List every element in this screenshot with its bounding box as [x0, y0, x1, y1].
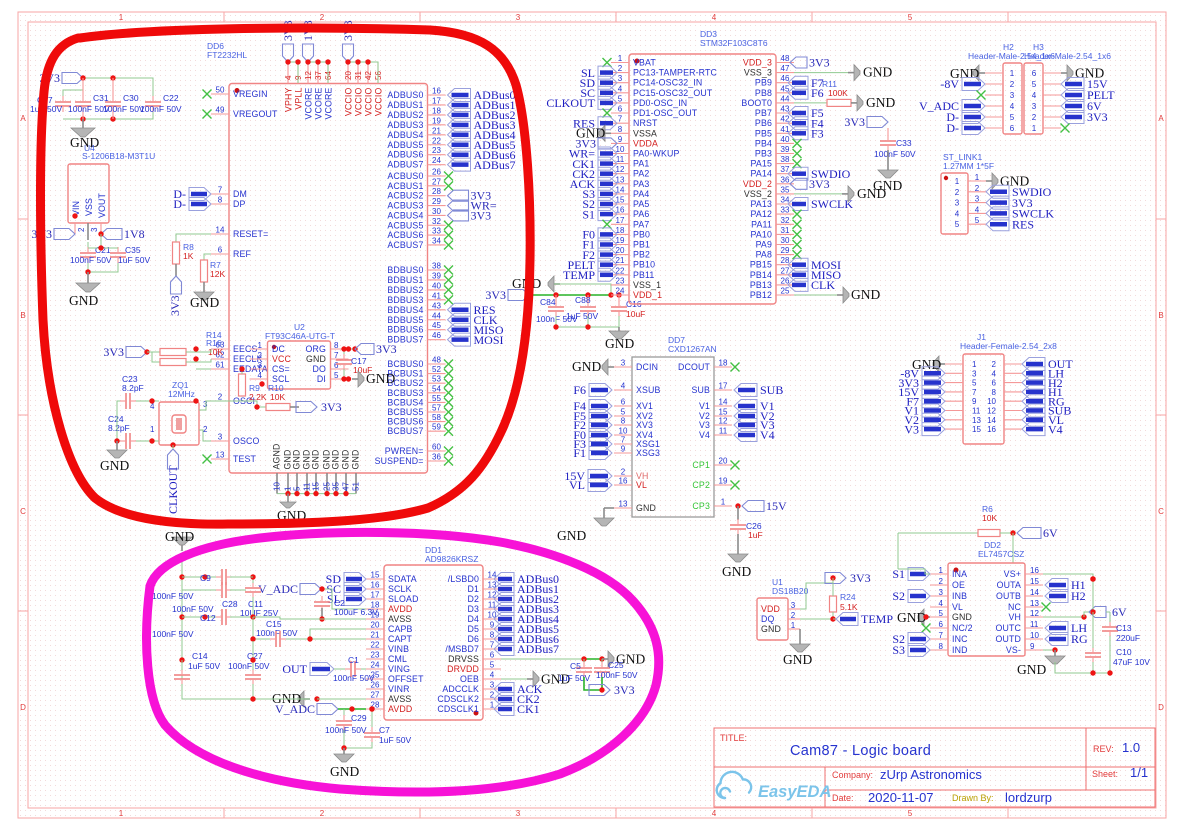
svg-text:DP: DP	[233, 199, 246, 209]
svg-text:23: 23	[371, 651, 380, 660]
pin 20 CP1	[714, 464, 732, 466]
svg-text:GND: GND	[866, 95, 895, 110]
svg-text:GND: GND	[351, 450, 361, 470]
svg-text:ACBUS7: ACBUS7	[387, 240, 423, 250]
svg-text:1uF 50V: 1uF 50V	[558, 673, 590, 683]
port TEMP	[833, 618, 836, 620]
pin 40 PB4	[776, 142, 794, 144]
svg-text:GND: GND	[165, 529, 194, 544]
svg-text:BDBUS6: BDBUS6	[387, 325, 423, 335]
pin 4 OEB	[483, 678, 501, 680]
wire VS+ to 6V	[1043, 574, 1093, 579]
svg-text:V3: V3	[699, 420, 710, 430]
svg-text:4: 4	[621, 382, 626, 391]
pin 33 ACBUS6	[428, 234, 446, 236]
pin 44 BOOT0	[776, 102, 794, 104]
svg-text:3V3: 3V3	[168, 295, 182, 316]
svg-text:4: 4	[258, 371, 263, 380]
pin 48 BCBUS0	[428, 363, 446, 365]
pin 9 VDDA	[611, 142, 629, 144]
svg-text:21: 21	[432, 126, 441, 135]
svg-text:VSS_2: VSS_2	[744, 189, 772, 199]
svg-text:22: 22	[616, 266, 625, 275]
pin 12 V3	[714, 424, 732, 426]
svg-text:1.27MM 1*5F: 1.27MM 1*5F	[943, 161, 994, 171]
wire R9 top to EEDATA	[241, 369, 243, 374]
svg-text:3: 3	[516, 13, 521, 22]
svg-text:PA12: PA12	[751, 209, 772, 219]
pin 12 D2	[483, 598, 501, 600]
port 15V	[1061, 78, 1084, 91]
pin 17 ADBUS1	[428, 104, 446, 106]
svg-text:100nF 50V: 100nF 50V	[874, 149, 916, 159]
svg-text:CDSCLK1: CDSCLK1	[437, 704, 479, 714]
pin 3 OSCO	[211, 440, 229, 442]
svg-text:V4: V4	[699, 430, 710, 440]
svg-text:48: 48	[781, 54, 790, 63]
svg-text:6: 6	[992, 379, 997, 388]
svg-text:C9: C9	[200, 573, 211, 583]
capacitor C17	[343, 349, 345, 355]
svg-text:BDBUS5: BDBUS5	[387, 315, 423, 325]
svg-text:PA4: PA4	[633, 189, 649, 199]
wire AVSS 27	[317, 698, 366, 700]
svg-text:3V3: 3V3	[321, 400, 342, 414]
svg-text:1: 1	[972, 360, 977, 369]
svg-text:AVDD: AVDD	[388, 704, 412, 714]
svg-text:1: 1	[490, 701, 495, 710]
svg-text:AVDD: AVDD	[388, 604, 412, 614]
power flag 3V3 (cap bank)	[62, 73, 83, 84]
port RES	[598, 117, 617, 130]
svg-text:Header-Male-2.54_1x6: Header-Male-2.54_1x6	[1024, 51, 1111, 61]
wire VCCIO rail	[348, 62, 378, 83]
port SD	[344, 573, 366, 586]
svg-text:34: 34	[432, 236, 441, 245]
port V3	[734, 419, 757, 432]
port D-	[189, 188, 211, 201]
port S3	[908, 644, 930, 657]
port ACK	[494, 683, 514, 696]
pin 18 PB0	[611, 233, 629, 235]
ST_LINK1 pin 1	[968, 180, 986, 182]
svg-text:ACBUS2: ACBUS2	[387, 191, 423, 201]
svg-text:8: 8	[490, 631, 495, 640]
pin 39 PB3	[776, 153, 794, 155]
svg-text:44: 44	[781, 94, 790, 103]
IC DD7 CXD1267AN body	[632, 357, 714, 517]
svg-text:8: 8	[218, 196, 223, 205]
svg-text:PB11: PB11	[633, 270, 654, 280]
svg-text:-8V: -8V	[940, 77, 959, 91]
svg-text:13: 13	[216, 451, 225, 460]
svg-text:PA1: PA1	[633, 159, 649, 169]
capacitor C21	[87, 242, 89, 248]
svg-text:FT93C46A-UTG-T: FT93C46A-UTG-T	[265, 331, 335, 341]
pin 19 PB1	[611, 244, 629, 246]
svg-text:VDD: VDD	[761, 604, 780, 614]
svg-text:2: 2	[939, 577, 944, 586]
pin 8 D6	[483, 638, 501, 640]
svg-text:CK1: CK1	[517, 702, 540, 716]
svg-text:9: 9	[1030, 642, 1035, 651]
pin 29 ACBUS3	[428, 205, 446, 207]
svg-text:VCC: VCC	[272, 354, 292, 364]
port V2	[734, 410, 757, 423]
capacitor C1 100nF 50V	[350, 661, 352, 677]
svg-text:OUT: OUT	[282, 662, 307, 676]
port SWCLK	[788, 198, 808, 211]
svg-text:XSG3: XSG3	[636, 448, 660, 458]
pin 43 BDBUS4	[428, 309, 446, 311]
ground (H2 pin1)	[979, 72, 985, 74]
port SWCLK	[986, 207, 1009, 220]
port MISO	[448, 323, 471, 336]
svg-text:23: 23	[432, 146, 441, 155]
svg-text:VL: VL	[636, 480, 647, 490]
port LH	[1045, 622, 1068, 635]
H3 pin 2	[1043, 116, 1061, 118]
svg-text:15: 15	[312, 482, 321, 491]
power flag 3V3 (VDDA)	[598, 138, 617, 149]
capacitor C7 1uF 50V	[371, 709, 373, 728]
pin 29 PA8	[776, 254, 794, 256]
pin 2 VH	[614, 475, 632, 477]
port ADBus2	[494, 593, 514, 606]
pin 10 XV4	[614, 434, 632, 436]
svg-text:2: 2	[320, 13, 325, 22]
svg-text:59: 59	[432, 423, 441, 432]
svg-text:7: 7	[334, 351, 339, 360]
port WR=	[598, 147, 617, 160]
DD2 pin 13 NC	[1025, 606, 1043, 608]
svg-text:7: 7	[972, 388, 977, 397]
pin 3 VOUT	[100, 223, 102, 234]
svg-text:17: 17	[432, 96, 441, 105]
svg-text:3: 3	[791, 601, 796, 610]
svg-text:4: 4	[284, 75, 293, 80]
ground (VSS_2)	[794, 193, 842, 195]
capacitor C29 100nF 50V	[343, 709, 345, 716]
port S1	[908, 568, 930, 581]
power flag 3V3 (U2 ORG)	[349, 348, 356, 350]
port H2	[1022, 376, 1045, 389]
capacitor C33	[880, 140, 896, 142]
svg-text:REF: REF	[233, 249, 252, 259]
U1 pin 2 DQ	[788, 618, 800, 620]
pin 6 XV1	[614, 405, 632, 407]
svg-text:PB14: PB14	[750, 270, 772, 280]
pin 23 CML	[366, 658, 384, 660]
svg-text:54: 54	[432, 384, 441, 393]
port 6V	[1061, 100, 1084, 113]
svg-text:2: 2	[218, 393, 223, 402]
svg-text:AVSS: AVSS	[388, 614, 411, 624]
pin 19 AVSS	[366, 618, 384, 620]
pin 15 GND (bottom)	[315, 473, 317, 494]
svg-text:12: 12	[1030, 609, 1039, 618]
ground (FT2232 bottom)	[287, 494, 289, 502]
resistor R14 10K	[160, 349, 186, 356]
pin 17 SUB	[714, 389, 732, 391]
pin 32 ACBUS5	[428, 224, 446, 226]
svg-text:PA5: PA5	[633, 199, 649, 209]
svg-text:OSCO: OSCO	[233, 436, 260, 446]
svg-text:CAPT: CAPT	[388, 634, 413, 644]
wire DRVSS to GND	[501, 658, 584, 660]
svg-text:2: 2	[975, 184, 980, 193]
svg-text:Date:: Date:	[832, 793, 854, 803]
svg-text:VREGIN: VREGIN	[233, 89, 268, 99]
svg-text:4: 4	[975, 205, 980, 214]
svg-text:GND: GND	[952, 612, 972, 622]
svg-text:GND: GND	[341, 450, 351, 470]
svg-text:38: 38	[781, 155, 790, 164]
pin 7 DM	[211, 193, 229, 195]
svg-text:10: 10	[1030, 631, 1039, 640]
pin 2 PC13-TAMPER-RTC	[611, 72, 629, 74]
svg-text:NRST: NRST	[633, 118, 658, 128]
svg-text:S2: S2	[892, 589, 905, 603]
pin 23 ADBUS6	[428, 154, 446, 156]
svg-text:VSS_1: VSS_1	[633, 280, 661, 290]
pin 24 VDD_1	[611, 294, 629, 296]
port ADBus1	[494, 583, 514, 596]
svg-text:DQ: DQ	[761, 614, 775, 624]
port MOSI	[788, 258, 808, 271]
pin 9 VPLL (top)	[297, 62, 299, 84]
svg-text:19: 19	[719, 477, 728, 486]
svg-text:C: C	[1158, 507, 1164, 516]
svg-text:DCOUT: DCOUT	[678, 362, 711, 372]
svg-text:VOUT: VOUT	[97, 192, 107, 218]
pin 20 PB2	[611, 254, 629, 256]
power flag 3V3 (C33)	[867, 117, 888, 128]
svg-text:GND: GND	[722, 564, 751, 579]
DD2 pin 5 GND	[930, 616, 948, 618]
svg-text:PB15: PB15	[750, 260, 772, 270]
svg-text:17: 17	[371, 591, 380, 600]
pin 27 AVSS	[366, 698, 384, 700]
svg-text:20: 20	[616, 246, 625, 255]
pin 55 BCBUS4	[428, 401, 446, 403]
power flag V_ADC (AVDD 28)	[317, 704, 338, 715]
svg-text:VCCIO: VCCIO	[374, 88, 384, 117]
pin 1 VIN	[74, 223, 76, 234]
svg-text:19: 19	[432, 116, 441, 125]
capacitor C13 220uF	[1102, 626, 1118, 628]
port F7	[922, 395, 945, 408]
U2 pin 3 CS=	[250, 368, 268, 370]
svg-text:INA: INA	[952, 569, 967, 579]
svg-text:15: 15	[972, 425, 981, 434]
pin 42 VCCIO (top)	[367, 62, 369, 84]
svg-text:VL: VL	[569, 478, 585, 492]
svg-text:100uF 6.3V: 100uF 6.3V	[334, 607, 378, 617]
svg-text:ADBUS1: ADBUS1	[387, 100, 423, 110]
svg-text:A: A	[1158, 114, 1164, 123]
pin 7 /MSBD7	[483, 648, 501, 650]
pin 58 BCBUS6	[428, 421, 446, 423]
port ADBus4	[448, 128, 471, 141]
pin 32 PA11	[776, 223, 794, 225]
capacitor C25 100nF 50V	[601, 659, 603, 663]
svg-text:9: 9	[972, 397, 977, 406]
wire CAPT	[286, 638, 366, 640]
pin 44 BDBUS5	[428, 319, 446, 321]
pin 25 OFFSET	[366, 678, 384, 680]
power flag 3V3 (EEPROM pullups)	[126, 347, 147, 358]
svg-text:V1: V1	[699, 401, 710, 411]
svg-text:AGND: AGND	[272, 443, 282, 469]
svg-text:ACBUS5: ACBUS5	[387, 220, 423, 230]
pin 10 AGND (bottom)	[276, 473, 278, 494]
svg-text:6: 6	[621, 398, 626, 407]
annotation red loop	[41, 28, 531, 524]
wire EECLK	[186, 359, 211, 362]
svg-text:2: 2	[320, 809, 325, 818]
port VL	[588, 479, 612, 492]
svg-text:EasyEDA: EasyEDA	[758, 783, 831, 801]
svg-text:CML: CML	[388, 654, 407, 664]
svg-text:49: 49	[216, 106, 225, 115]
svg-text:3V3: 3V3	[614, 683, 635, 697]
ground (H3 pin6)	[1061, 72, 1067, 74]
capacitor C84	[555, 295, 557, 302]
pin 21 PB10	[611, 264, 629, 266]
svg-text:10K: 10K	[982, 513, 997, 523]
wire VCORE rail	[308, 62, 328, 83]
svg-text:100nF 50V: 100nF 50V	[103, 104, 145, 114]
pin 21 CAPT	[366, 638, 384, 640]
svg-text:XV3: XV3	[636, 420, 653, 430]
svg-text:BCBUS5: BCBUS5	[387, 407, 423, 417]
wire C29/C7 to GND	[344, 730, 372, 748]
svg-text:C7: C7	[379, 725, 390, 735]
U1 pin 3 VDD	[788, 608, 800, 610]
wire VS- to GND	[1043, 649, 1055, 651]
ground (cap cluster top)	[181, 545, 183, 551]
pin 28 AVDD	[366, 708, 384, 710]
svg-text:16: 16	[432, 87, 441, 96]
svg-text:3: 3	[490, 681, 495, 690]
svg-text:PB3: PB3	[755, 149, 772, 159]
H2 pin 1	[985, 72, 1003, 74]
svg-text:PA15: PA15	[751, 159, 772, 169]
svg-text:14: 14	[719, 398, 728, 407]
svg-text:11: 11	[303, 482, 312, 491]
svg-text:6: 6	[218, 246, 223, 255]
svg-text:1: 1	[119, 13, 124, 22]
pin 15 PA5	[611, 203, 629, 205]
svg-text:VS-: VS-	[1006, 645, 1021, 655]
svg-text:16: 16	[616, 206, 625, 215]
svg-text:DS18B20: DS18B20	[772, 586, 809, 596]
svg-text:/MSBD7: /MSBD7	[445, 644, 479, 654]
pin 24 VING	[366, 668, 384, 670]
port V4	[734, 429, 757, 442]
svg-text:24: 24	[432, 156, 441, 165]
svg-text:GND: GND	[366, 371, 395, 386]
port SUB	[1022, 404, 1045, 417]
svg-text:ORG: ORG	[306, 344, 327, 354]
wire S1 net	[898, 569, 930, 574]
port -8V	[962, 78, 985, 91]
svg-text:57: 57	[432, 404, 441, 413]
H3 pin 5	[1043, 83, 1061, 85]
port 3V3	[1061, 111, 1084, 124]
svg-text:5: 5	[955, 220, 960, 229]
svg-text:C84: C84	[540, 297, 556, 307]
svg-text:5: 5	[293, 486, 302, 491]
svg-text:8: 8	[992, 388, 997, 397]
resistor R16 10K	[160, 359, 186, 366]
svg-text:8.2pF: 8.2pF	[108, 423, 130, 433]
svg-text:Cam87 - Logic board: Cam87 - Logic board	[790, 743, 931, 759]
svg-text:55: 55	[432, 394, 441, 403]
U2 pin 5 DI	[331, 378, 349, 380]
svg-text:OE: OE	[952, 580, 965, 590]
svg-text:12K: 12K	[210, 269, 225, 279]
svg-text:OUTB: OUTB	[996, 591, 1021, 601]
pin 64 VCORE (top)	[327, 62, 329, 84]
svg-text:CLKOUT: CLKOUT	[166, 465, 180, 514]
svg-text:DCIN: DCIN	[636, 362, 658, 372]
DD2 pin 12 VH	[1025, 616, 1043, 618]
port F5	[589, 410, 612, 423]
svg-text:SUB: SUB	[760, 383, 783, 397]
ST_LINK1 pin 2	[968, 191, 986, 193]
svg-text:GND: GND	[330, 764, 359, 779]
svg-text:DM: DM	[233, 189, 247, 199]
ST_LINK1 pin 4	[968, 212, 986, 214]
pin 41 BDBUS3	[428, 299, 446, 301]
power flag 3V3 (R10)	[290, 406, 299, 408]
svg-text:PA10: PA10	[751, 229, 772, 239]
svg-text:ADCCLK: ADCCLK	[442, 684, 479, 694]
svg-text:V_ADC: V_ADC	[275, 702, 315, 716]
svg-text:GND: GND	[1017, 662, 1046, 677]
svg-text:A: A	[20, 114, 26, 123]
svg-text:29: 29	[432, 197, 441, 206]
J1 pin 11	[945, 410, 963, 412]
svg-text:1V8: 1V8	[124, 227, 145, 241]
port D-	[962, 111, 985, 124]
pin 1 CDSCLK1	[483, 708, 501, 710]
svg-text:12: 12	[719, 417, 728, 426]
svg-text:2: 2	[791, 611, 796, 620]
svg-text:GND: GND	[69, 293, 98, 308]
wire C10 bottom	[1055, 636, 1110, 673]
DD2 pin 3 INB	[930, 595, 948, 597]
svg-text:39: 39	[432, 271, 441, 280]
port S2	[908, 590, 930, 603]
pin 36 SUSPEND#	[428, 460, 446, 462]
svg-text:zUrp Astronomics: zUrp Astronomics	[880, 767, 982, 782]
svg-text:12: 12	[616, 165, 625, 174]
svg-text:C1: C1	[348, 655, 359, 665]
svg-text:15: 15	[371, 571, 380, 580]
svg-text:53: 53	[432, 375, 441, 384]
port F1	[589, 447, 612, 460]
svg-text:OEB: OEB	[460, 674, 479, 684]
port V4	[1022, 423, 1045, 436]
svg-text:14: 14	[616, 185, 625, 194]
power flag 3V3 on ACBUS2	[448, 190, 469, 201]
port SL	[344, 593, 366, 606]
wire VPHY-VPLL	[288, 62, 298, 83]
pin 28 PB15	[776, 264, 794, 266]
